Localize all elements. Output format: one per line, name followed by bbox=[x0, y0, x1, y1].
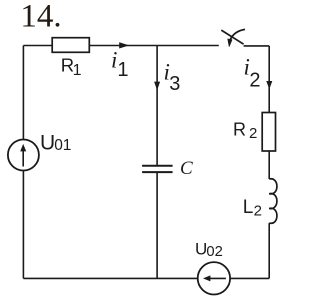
wire: right vertical (bottom corner up to L2 bottom) bbox=[268, 223, 270, 278]
switch blade bbox=[221, 30, 243, 44]
current arrow i2 bbox=[266, 81, 272, 89]
switch motion arrowhead bbox=[228, 39, 232, 47]
switch motion arc bbox=[230, 29, 245, 39]
svg-text:2: 2 bbox=[249, 125, 257, 142]
current arrow i1 bbox=[119, 42, 129, 48]
voltage source U02 arrow shaft bbox=[209, 277, 226, 279]
wire: left vertical (U01 bottom to bottom corner) bbox=[22, 170, 24, 278]
wire: top right horizontal (switch blade base to top-right corner) bbox=[244, 45, 270, 47]
svg-text:C: C bbox=[180, 158, 193, 179]
wire: middle vertical (capacitor bottom plate down to bottom wire) bbox=[156, 172, 158, 278]
svg-text:01: 01 bbox=[54, 137, 71, 154]
svg-text:2: 2 bbox=[249, 70, 260, 92]
svg-text:14.: 14. bbox=[20, 0, 61, 35]
voltage source U02 circle bbox=[198, 262, 230, 294]
svg-text:R: R bbox=[233, 120, 246, 140]
voltage source U02 arrowhead bbox=[203, 275, 210, 281]
svg-text:02: 02 bbox=[206, 244, 222, 260]
capacitor C top plate bbox=[142, 165, 173, 167]
svg-text:3: 3 bbox=[169, 73, 180, 95]
voltage source U01 arrowhead bbox=[20, 144, 26, 152]
current arrow i3 bbox=[154, 82, 160, 91]
svg-text:1: 1 bbox=[73, 62, 82, 79]
inductor L2 coil bbox=[269, 179, 277, 224]
wire: right vertical (L2 top to R2 bottom) bbox=[268, 151, 270, 179]
wire: middle vertical (top junction down to capacitor top plate) bbox=[156, 46, 158, 166]
svg-text:2: 2 bbox=[254, 203, 262, 220]
wire: left vertical (top corner down to U01 top) bbox=[22, 46, 24, 140]
svg-text:1: 1 bbox=[117, 59, 128, 81]
wire: bottom horizontal (U02 right edge to bottom-right corner) bbox=[230, 277, 269, 279]
voltage source U01 circle bbox=[8, 140, 39, 171]
svg-text:U: U bbox=[40, 131, 55, 154]
wire: bottom horizontal (left corner to U02 left edge) bbox=[23, 277, 197, 279]
svg-text:L: L bbox=[243, 197, 254, 218]
capacitor C bottom plate bbox=[142, 171, 173, 173]
wire: right vertical (R2 top up to top-right corner) bbox=[268, 46, 270, 113]
wire: top left horizontal (left corner to switch contact) bbox=[23, 45, 218, 47]
voltage source U01 arrow shaft bbox=[22, 150, 24, 167]
resistor R2 body bbox=[262, 113, 275, 152]
resistor R1 body bbox=[52, 38, 89, 53]
